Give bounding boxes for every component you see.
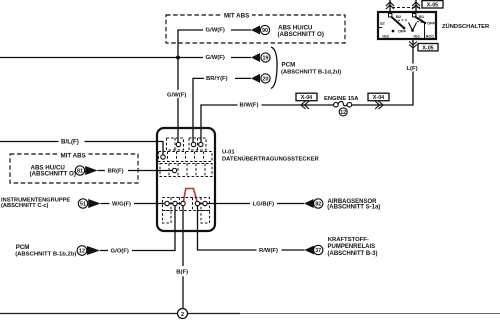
pin B/L <box>161 155 165 159</box>
switch label IG2 <box>383 34 390 39</box>
switch dashed detent arcs <box>398 20 423 23</box>
junction dot on G/W wire <box>176 56 180 60</box>
U-01 data link connector block <box>157 128 215 231</box>
switch label IG1 <box>414 34 421 39</box>
switch wiper arm right <box>415 17 426 24</box>
wire label L(F) <box>404 64 420 73</box>
svg-text:IG2: IG2 <box>383 34 390 39</box>
svg-text:PCM: PCM <box>282 62 296 69</box>
svg-text:G/O(F): G/O(F) <box>111 248 129 254</box>
svg-text:12: 12 <box>79 249 85 255</box>
switch terminal B2 <box>389 14 402 20</box>
svg-text:ZÜNDSCHALTER: ZÜNDSCHALTER <box>442 23 490 30</box>
wire G/W(F) to PCM pin 19 <box>0 54 251 62</box>
wire G/W(F) to ABS HU/CU <box>178 26 251 142</box>
inline connector chevron below switch <box>409 42 417 49</box>
label AIRBAGSENSOR <box>327 199 380 211</box>
wire BR/Y(F) to PCM pin 20 <box>193 75 251 143</box>
splice circle 2 <box>178 309 188 319</box>
svg-text:B1: B1 <box>419 14 425 19</box>
pin W/G <box>165 201 169 205</box>
label PCM (ABSCHNITT B-1b,2b) <box>15 244 76 257</box>
dashed option box MIT ABS (left) <box>10 151 138 183</box>
svg-text:12: 12 <box>340 110 346 116</box>
pin cavity bottom strip (dashed) <box>163 198 210 211</box>
inline connector chevrons X-04 right <box>375 101 383 109</box>
pin R/W <box>195 201 199 205</box>
label PCM (ABSCHNITT B-1d,2d) <box>281 62 341 76</box>
svg-text:(ABSCHNITT B-1d,2d): (ABSCHNITT B-1d,2d) <box>281 69 341 75</box>
label ABS HU/CU (ABSCHNITT O) left <box>30 165 76 178</box>
connector arrow 82 <box>304 199 323 208</box>
svg-text:X-04: X-04 <box>301 95 312 101</box>
ground bus rail <box>0 313 500 315</box>
svg-text:KRAFTSTOFF-: KRAFTSTOFF- <box>328 237 369 243</box>
label KRAFTSTOFF-PUMPENRELAIS <box>328 237 378 257</box>
connector label box X-05 bottom <box>418 44 438 52</box>
wire B(F) to ground splice <box>174 204 191 309</box>
svg-text:82: 82 <box>315 202 321 208</box>
svg-text:(ABSCHNITT S-1a): (ABSCHNITT S-1a) <box>327 205 380 211</box>
svg-text:OFF: OFF <box>398 29 407 34</box>
pin BR <box>172 168 176 172</box>
connector circle 81 with arrow <box>75 166 97 175</box>
svg-text:MIT ABS: MIT ABS <box>224 12 249 19</box>
svg-text:L(F): L(F) <box>406 66 417 72</box>
svg-text:G/W(F): G/W(F) <box>206 55 225 61</box>
wire R/W(F) to fuel pump relay <box>198 204 305 255</box>
brace grouping pins 19-20 <box>271 47 277 89</box>
switch label ST <box>378 21 386 28</box>
svg-text:OFF: OFF <box>427 21 436 26</box>
svg-text:19: 19 <box>263 56 269 62</box>
wire to ignition switch B1 <box>415 0 417 13</box>
pin B <box>181 201 185 205</box>
svg-text:X-04: X-04 <box>373 95 384 101</box>
connector arrow 19 <box>251 53 270 62</box>
switch label OFF right <box>427 21 436 26</box>
switch wiper arm left <box>391 17 404 29</box>
svg-text:B(F): B(F) <box>176 270 188 276</box>
svg-text:PUMPENRELAIS: PUMPENRELAIS <box>328 244 376 250</box>
wire to ignition switch B2 <box>389 0 391 13</box>
svg-text:W/G(F): W/G(F) <box>112 201 131 207</box>
switch cell divider <box>424 22 426 39</box>
connector arrow 90 <box>251 25 270 34</box>
svg-text:PCM: PCM <box>16 244 30 251</box>
switch contact V linkage <box>392 23 417 33</box>
pin cavity bottom outer right (dashed) <box>201 211 210 224</box>
connector arrow 37 <box>305 245 323 254</box>
connector label box X-04 right <box>368 93 389 101</box>
pin cavity row A left (dashed) <box>167 138 184 150</box>
svg-text:(ABSCHNITT B-1b,2b): (ABSCHNITT B-1b,2b) <box>15 252 76 258</box>
svg-text:2: 2 <box>181 312 184 318</box>
pin G/W <box>176 142 180 146</box>
svg-text:(ABSCHNITT O): (ABSCHNITT O) <box>278 31 324 38</box>
svg-text:90: 90 <box>262 28 268 34</box>
component label ZUENDSCHALTER <box>442 23 490 30</box>
svg-text:20: 20 <box>263 77 269 83</box>
svg-text:G/W(F): G/W(F) <box>206 28 225 34</box>
svg-text:ST: ST <box>380 21 386 26</box>
svg-text:X-05: X-05 <box>422 45 433 51</box>
connector label box X-04 left <box>296 93 317 101</box>
svg-text:X-05: X-05 <box>427 3 438 9</box>
label INSTRUMENTENGRUPPE <box>1 197 70 208</box>
svg-text:B/L(F): B/L(F) <box>61 138 79 145</box>
svg-text:(ABSCHNITT C-c): (ABSCHNITT C-c) <box>1 203 48 209</box>
svg-text:DATENÜBERTRAGUNGSSTECKER: DATENÜBERTRAGUNGSSTECKER <box>222 155 320 162</box>
svg-text:BR/Y(F): BR/Y(F) <box>206 76 228 82</box>
pin LG/B <box>203 201 207 205</box>
connector circle 51 with arrow <box>78 199 100 208</box>
wire BR(F) to U-01 <box>98 167 175 175</box>
svg-text:ACC: ACC <box>426 34 435 39</box>
wire B/W(F) from U-01 to fuse/ignition switch <box>201 40 413 143</box>
pin BR/Y <box>191 142 195 146</box>
switch label ACC <box>426 34 435 39</box>
svg-text:B/W(F): B/W(F) <box>240 103 259 109</box>
wire LG/B(F) to airbag sensor <box>198 200 305 208</box>
red jumper wire in U-01 <box>183 189 198 204</box>
svg-text:BR(F): BR(F) <box>108 168 124 174</box>
fuse number circle 12 <box>339 108 347 116</box>
fuse ENGINE 15A <box>324 96 359 109</box>
svg-text:B2: B2 <box>396 14 402 19</box>
wire G/O(F) to U-01 <box>100 204 175 255</box>
svg-text:MIT ABS: MIT ABS <box>61 152 86 159</box>
svg-text:G/W(F): G/W(F) <box>167 92 186 98</box>
switch label OFF left <box>398 29 407 34</box>
wire B/L(F) from left <box>0 138 163 157</box>
connector arrow 20 <box>251 74 270 83</box>
svg-text:U-01: U-01 <box>222 150 235 156</box>
svg-text:51: 51 <box>80 202 86 208</box>
pin cavity bottom outer left (dashed) <box>163 211 172 224</box>
connector label box X-05 top <box>422 1 443 9</box>
svg-text:R/W(F): R/W(F) <box>259 248 278 254</box>
label ABS HU/CU (ABSCHNITT O) top <box>278 24 324 38</box>
pin G/O <box>173 201 177 205</box>
pin cavity row C (dashed) <box>160 164 212 177</box>
dashed option box MIT ABS (top) <box>166 11 345 43</box>
label U-01 DATENUEBERTRAGUNGSSTECKER <box>222 150 320 163</box>
svg-text:IG1: IG1 <box>414 34 421 39</box>
svg-text:(ABSCHNITT B-3): (ABSCHNITT B-3) <box>328 251 378 257</box>
pin cavity row B (dashed) <box>159 152 213 162</box>
svg-text:81: 81 <box>77 169 83 175</box>
svg-text:37: 37 <box>315 248 321 254</box>
switch terminal B1 <box>413 14 425 20</box>
wire W/G(F) to U-01 <box>101 200 183 208</box>
inline connector chevrons above switch <box>386 2 420 9</box>
inline connector chevrons X-04 left <box>301 101 309 109</box>
pin B/W <box>199 142 203 146</box>
pin cavity row A right (dashed) <box>189 138 206 150</box>
wire label G/W(F) vertical segment <box>165 90 190 99</box>
connector circle 12 with arrow <box>77 246 100 256</box>
svg-text:LG/B(F): LG/B(F) <box>253 202 275 208</box>
ignition switch box U <box>378 12 436 39</box>
svg-text:(ABSCHNITT O): (ABSCHNITT O) <box>30 171 76 178</box>
dashed link to X-05 label <box>392 7 422 9</box>
